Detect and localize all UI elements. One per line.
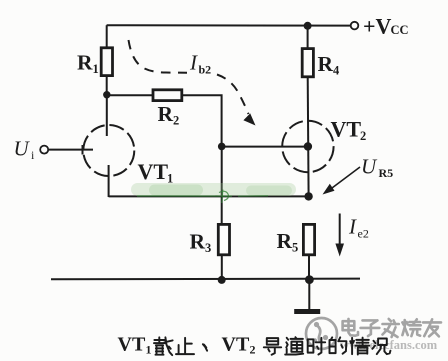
watermark logo xyxy=(306,318,337,349)
watermark text 电子发烧友 xyxy=(343,319,358,336)
transistor VT2 (dashed circle, conducting) xyxy=(282,117,366,173)
wire VT1 emitter to VT2 emitter node xyxy=(109,195,309,197)
wire R3 bottom lead xyxy=(221,255,223,280)
resistor R1 xyxy=(77,48,113,76)
wire R4 top lead xyxy=(307,26,309,49)
wire junction to R2 xyxy=(107,94,153,96)
svg-text:1: 1 xyxy=(146,343,152,357)
wire R4 through VT2 to emitter node xyxy=(307,77,310,197)
wire column down to R3 xyxy=(221,147,223,225)
wire R1 bottom lead xyxy=(106,76,108,95)
wire to ground xyxy=(308,279,310,310)
arrowhead of Ib2 path xyxy=(243,113,255,125)
node R5 / bottom line xyxy=(305,275,314,284)
svg-text:2: 2 xyxy=(250,343,256,357)
resistor R4 xyxy=(302,49,340,78)
node R1/R2/VT1-collector junction xyxy=(103,91,110,98)
wire R2 to corner and down to VT2 base node xyxy=(182,95,222,146)
label UR5 with arrow to emitter node xyxy=(323,155,394,195)
wire R1 top lead xyxy=(106,25,108,48)
current arrow Ie2 xyxy=(335,214,368,257)
node top rail / R4 xyxy=(304,22,312,30)
dashed current path Ib2 xyxy=(129,40,249,114)
resistor R3 xyxy=(190,224,230,255)
green scribble at R3/emitter-wire junction xyxy=(137,190,268,204)
caption VT1 cutoff, VT2 conducting xyxy=(118,334,152,357)
svg-text:VT: VT xyxy=(118,334,146,356)
wire bottom common line xyxy=(51,278,360,281)
resistor R2 xyxy=(153,90,182,128)
power terminal +VCC xyxy=(351,14,409,39)
node VT2 base-column junction xyxy=(218,143,226,151)
wire top supply rail xyxy=(107,24,351,26)
wire base node to VT2 xyxy=(222,146,308,148)
ground xyxy=(294,309,320,314)
wire Ui to VT1 base xyxy=(48,145,93,155)
node R3 / bottom line xyxy=(218,276,226,284)
label Ib2 xyxy=(189,51,211,77)
svg-text:VT: VT xyxy=(222,334,250,356)
node VT2 emitter xyxy=(304,192,312,200)
resistor R5 xyxy=(277,224,315,254)
transistor VT1 (dashed circle, cut off) xyxy=(83,95,173,197)
highlighter mark over emitter wire xyxy=(131,183,296,196)
input terminal Ui xyxy=(14,137,49,163)
wire R5 bottom lead xyxy=(308,255,310,279)
